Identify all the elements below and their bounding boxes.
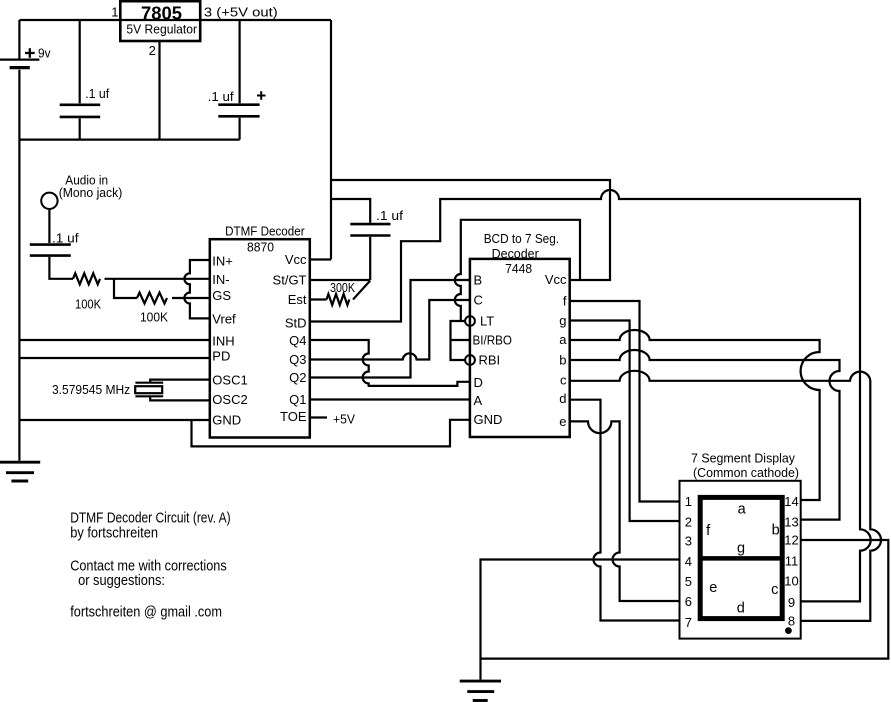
capacitor C2 .1uf polarized bbox=[208, 20, 266, 140]
wire left rail battery to ground bbox=[18, 70, 20, 461]
wire 7448 g to display pin2 bbox=[570, 321, 681, 522]
svg-text:Vref: Vref bbox=[212, 312, 236, 327]
svg-text:2: 2 bbox=[685, 515, 692, 530]
wire +5V branch to 7448 Vcc rail bbox=[331, 180, 610, 280]
svg-text:7: 7 bbox=[685, 615, 692, 630]
svg-text:Decoder: Decoder bbox=[492, 246, 540, 261]
wire DTMF Vcc to +5V drop bbox=[310, 258, 331, 260]
svg-text:100K: 100K bbox=[140, 311, 169, 325]
svg-text:.1 uf: .1 uf bbox=[208, 89, 234, 104]
svg-text:C: C bbox=[474, 293, 483, 308]
chip U3 BCD to 7 Seg Decoder 7448 bbox=[470, 231, 570, 437]
svg-text:IN+: IN+ bbox=[212, 254, 233, 269]
wire display pin12 loop to ground bbox=[481, 540, 889, 659]
wire R2 to GS pin bbox=[172, 297, 210, 299]
wire Q2 to 7448 B bbox=[310, 280, 470, 378]
capacitor C4 .1uf bbox=[350, 208, 403, 236]
wire C4 bottom to St/GT bbox=[310, 237, 370, 280]
svg-text:e: e bbox=[709, 580, 717, 596]
svg-text:.1 uf: .1 uf bbox=[85, 86, 109, 101]
svg-text:2: 2 bbox=[149, 43, 156, 58]
svg-text:8870: 8870 bbox=[247, 240, 274, 255]
wire GND branch under DTMF to 7448 GND bbox=[192, 420, 470, 447]
svg-text:9: 9 bbox=[788, 595, 795, 610]
svg-text:d: d bbox=[737, 601, 745, 617]
svg-text:8: 8 bbox=[788, 613, 795, 628]
svg-text:GND: GND bbox=[474, 412, 503, 427]
wire bottom rail under 7805 bbox=[19, 139, 239, 141]
svg-text:IN-: IN- bbox=[212, 272, 229, 287]
svg-text:.1 uf: .1 uf bbox=[52, 231, 79, 246]
svg-text:StD: StD bbox=[285, 316, 307, 331]
svg-text:c: c bbox=[560, 373, 567, 388]
svg-text:3.579545 MHz: 3.579545 MHz bbox=[52, 383, 130, 397]
wire 7448 a to display pin14 bbox=[570, 330, 820, 500]
battery B1 +9v bbox=[0, 20, 51, 68]
svg-text:B: B bbox=[474, 273, 483, 288]
wire 7448 f to display pin1 bbox=[570, 301, 681, 502]
svg-text:DTMF Decoder Circuit (rev. A): DTMF Decoder Circuit (rev. A) bbox=[70, 510, 230, 526]
wire Est to R3 bbox=[310, 298, 327, 300]
svg-text:Vcc: Vcc bbox=[285, 252, 307, 267]
wire 7448 b to display pin13 bbox=[570, 350, 840, 520]
svg-text:g: g bbox=[559, 313, 566, 328]
svg-text:Q4: Q4 bbox=[289, 333, 306, 348]
wire junction down to R2 bbox=[114, 279, 137, 298]
svg-text:LT: LT bbox=[480, 314, 494, 329]
wire right +5V drop to DTMF Vcc bbox=[330, 20, 332, 260]
svg-text:RBI: RBI bbox=[479, 353, 501, 368]
svg-text:5V Regulator: 5V Regulator bbox=[126, 23, 197, 37]
svg-text:5: 5 bbox=[685, 574, 692, 589]
svg-text:Q1: Q1 bbox=[289, 392, 306, 407]
svg-text:BCD to 7 Seg.: BCD to 7 Seg. bbox=[484, 231, 559, 246]
svg-text:Q2: Q2 bbox=[289, 370, 306, 385]
wire +5V branch to C4 top bbox=[331, 199, 370, 223]
wire C3 to R1 bbox=[49, 257, 73, 279]
svg-text:f: f bbox=[563, 294, 567, 309]
svg-text:c: c bbox=[771, 582, 778, 598]
svg-text:.1 uf: .1 uf bbox=[376, 208, 403, 223]
svg-text:300K: 300K bbox=[330, 281, 356, 295]
svg-text:14: 14 bbox=[784, 494, 798, 509]
svg-text:12: 12 bbox=[784, 533, 798, 548]
wire Q3 to 7448 C with hop bbox=[310, 300, 470, 360]
svg-text:a: a bbox=[559, 332, 567, 347]
wire jack to C3 bbox=[48, 209, 50, 243]
svg-text:7 Segment Display: 7 Segment Display bbox=[691, 451, 795, 466]
capacitor C1 .1uf bbox=[60, 20, 110, 140]
decimal point bbox=[785, 627, 792, 634]
svg-text:b: b bbox=[772, 522, 780, 538]
resistor R2 100K bbox=[137, 293, 169, 325]
svg-text:10: 10 bbox=[784, 574, 798, 589]
svg-text:e: e bbox=[559, 414, 566, 429]
capacitor C3 .1uf bbox=[30, 231, 79, 256]
svg-text:GS: GS bbox=[212, 288, 231, 303]
wire Q4 to 7448 D with hops bbox=[310, 340, 470, 386]
svg-text:100K: 100K bbox=[75, 298, 102, 312]
svg-text:D: D bbox=[474, 375, 483, 390]
svg-text:11: 11 bbox=[785, 554, 799, 569]
svg-text:(Common cathode): (Common cathode) bbox=[693, 465, 799, 480]
note text block bbox=[70, 510, 230, 620]
wire IN+ to Vref with hops bbox=[184, 260, 209, 318]
svg-text:3: 3 bbox=[685, 534, 692, 549]
chip U2 DTMF Decoder 8870 bbox=[210, 224, 310, 438]
resistor R1 100K bbox=[73, 273, 102, 311]
wire TOE +5V stub bbox=[310, 416, 327, 418]
wire 7448 GND to display pin4 and ground bbox=[481, 560, 681, 680]
svg-text:9v: 9v bbox=[38, 46, 51, 60]
resistor R3 300K bbox=[327, 281, 356, 305]
wire 7448 c to display pin8 bbox=[570, 371, 881, 621]
svg-text:6: 6 bbox=[685, 594, 692, 609]
svg-text:7448: 7448 bbox=[505, 261, 532, 276]
svg-text:3 (+5V out): 3 (+5V out) bbox=[204, 5, 278, 19]
wire INH to left rail bbox=[19, 339, 209, 341]
svg-text:GND: GND bbox=[212, 413, 241, 428]
svg-text:+5V: +5V bbox=[333, 412, 355, 427]
svg-text:13: 13 bbox=[784, 515, 798, 530]
svg-text:TOE: TOE bbox=[280, 409, 307, 424]
audio jack J1 bbox=[41, 173, 122, 210]
svg-text:PD: PD bbox=[212, 349, 230, 364]
regulator U1 7805 bbox=[120, 1, 200, 41]
svg-text:OSC2: OSC2 bbox=[212, 392, 247, 407]
wire 7805 pin2 to bottom rail bbox=[158, 41, 160, 140]
svg-text:Contact me with corrections: Contact me with corrections bbox=[70, 558, 227, 574]
wire 7448 Vcc loop to LT bracket with hops bbox=[455, 220, 580, 321]
crystal X1 3.579545 MHz bbox=[52, 380, 210, 401]
svg-text:7805: 7805 bbox=[141, 2, 182, 23]
wire Q1 to 7448 A bbox=[310, 398, 470, 400]
svg-text:OSC1: OSC1 bbox=[212, 373, 247, 388]
svg-text:(Mono jack): (Mono jack) bbox=[59, 185, 123, 200]
wire top +9v rail to 7805 pin1 and pin3 to right drop bbox=[19, 19, 331, 21]
svg-text:1: 1 bbox=[111, 5, 118, 20]
svg-text:BI/RBO: BI/RBO bbox=[473, 334, 513, 348]
svg-text:d: d bbox=[559, 391, 566, 406]
wire R3 to St/GT node bbox=[353, 281, 370, 300]
wire 7448 d to display pin7 bbox=[570, 400, 681, 621]
svg-text:Q3: Q3 bbox=[289, 352, 306, 367]
wire GND DTMF to left rail bbox=[19, 419, 209, 421]
wire LT BI/RBO RBI bracket bbox=[451, 321, 470, 360]
svg-text:St/GT: St/GT bbox=[273, 273, 307, 288]
bubble RBI bbox=[465, 355, 475, 365]
svg-text:by fortschreiten: by fortschreiten bbox=[70, 525, 158, 541]
svg-text:INH: INH bbox=[212, 334, 234, 349]
svg-text:or suggestions:: or suggestions: bbox=[78, 573, 165, 589]
svg-text:DTMF Decoder: DTMF Decoder bbox=[225, 224, 305, 239]
svg-text:Est: Est bbox=[288, 292, 307, 307]
svg-text:g: g bbox=[737, 541, 745, 557]
svg-text:4: 4 bbox=[685, 554, 692, 569]
svg-text:A: A bbox=[474, 393, 483, 408]
svg-text:fortschreiten @ gmail .com: fortschreiten @ gmail .com bbox=[70, 605, 222, 621]
svg-text:Vcc: Vcc bbox=[545, 272, 567, 287]
bubble LT bbox=[465, 316, 475, 326]
svg-text:1: 1 bbox=[685, 494, 692, 509]
display DS1 7 segment bbox=[680, 451, 801, 639]
ground bottom bbox=[460, 681, 501, 700]
wire R1 to IN- pin bbox=[105, 278, 210, 280]
svg-text:a: a bbox=[738, 502, 747, 518]
ground left bbox=[0, 462, 40, 481]
wire PD to left rail bbox=[19, 357, 209, 359]
svg-text:b: b bbox=[559, 352, 566, 367]
wire StD to display pin9 long run bbox=[310, 190, 871, 601]
wire 7448 e to display pin6 bbox=[570, 421, 681, 601]
